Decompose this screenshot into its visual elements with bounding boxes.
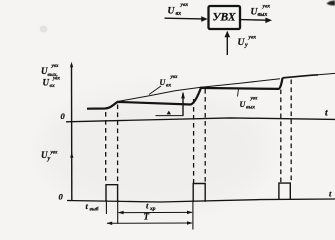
label t выб: [86, 201, 99, 213]
dashed line pair 1: [106, 80, 292, 184]
svg-text:увх: увх: [250, 97, 258, 102]
svg-text:увх: увх: [180, 2, 189, 8]
dimension tick at pulse1 right: [117, 200, 119, 224]
svg-text:увх: увх: [170, 75, 178, 80]
wire output arrow: [241, 18, 272, 24]
pulse 3: [279, 183, 290, 200]
svg-text:увх: увх: [248, 35, 257, 41]
svg-text:T: T: [144, 212, 150, 222]
upper t-axis: [66, 118, 335, 122]
label Uу увх (control): [238, 35, 257, 49]
dimension line t хр: [118, 211, 193, 215]
svg-text:U: U: [168, 7, 176, 17]
svg-text:увх: увх: [262, 4, 271, 10]
svg-text:вх: вх: [50, 83, 55, 89]
svg-text:вых: вых: [246, 105, 255, 111]
dimension tick at pulse1 left: [105, 200, 107, 214]
delta mark (small triangle): [167, 111, 171, 115]
scan speck top-right corner: [327, 1, 335, 6]
svg-text:увх: увх: [50, 151, 58, 156]
svg-text:УВХ: УВХ: [212, 12, 235, 24]
wire control arrow (vertical): [225, 31, 231, 55]
svg-text:увх: увх: [52, 77, 60, 82]
output signal Uвых (thick held waveform): [87, 78, 283, 109]
dimension tick at pulse2 left: [192, 200, 194, 230]
svg-text:U: U: [43, 78, 50, 88]
lower t-axis: [67, 199, 335, 202]
wire pointer line to held line: [238, 89, 239, 97]
label Uвых увх (pointer to held line): [240, 97, 258, 111]
droop dimension vertical arrow: [181, 92, 185, 116]
dashed line pair 3: [280, 90, 282, 183]
block UVH box: [209, 6, 241, 29]
label Uвх увх (input): [168, 2, 189, 17]
svg-text:выб: выб: [90, 206, 99, 213]
pulse 2: [193, 184, 205, 202]
wire input arrow: [165, 16, 208, 22]
droop dimension reference line: [156, 115, 184, 117]
pulse 1: [106, 185, 118, 202]
upper y-axis (shared vertical line): [70, 62, 73, 201]
scan shading: [40, 88, 270, 212]
label Uвых увх, Uвх увх (upper y-axis): [41, 64, 60, 89]
label Uвх увх (pointer to ramp): [160, 75, 178, 89]
dashed line pair 2: [193, 99, 195, 184]
scan smudge top-left: [40, 26, 48, 33]
input signal Uвх (thin ramp): [87, 79, 280, 109]
svg-text:вх: вх: [166, 83, 171, 89]
wire pointer line to ramp: [149, 86, 161, 95]
combined tail of ramp after 3rd sample: [283, 75, 319, 78]
svg-text:у: у: [47, 156, 51, 162]
svg-text:увх: увх: [51, 64, 59, 69]
svg-text:вх: вх: [176, 11, 182, 17]
svg-text:хр: хр: [149, 206, 156, 212]
label Uвых увх (output): [251, 4, 271, 19]
dimension line T: [107, 221, 193, 225]
svg-text:у: у: [244, 43, 248, 49]
svg-text:вых: вых: [258, 12, 268, 18]
svg-text:t: t: [325, 108, 328, 118]
label t хр: [146, 201, 156, 213]
thin far end of ramp tail: [318, 73, 335, 74]
lower y-axis arrow: [70, 152, 73, 158]
label Uу увх (lower y-axis): [41, 150, 58, 162]
